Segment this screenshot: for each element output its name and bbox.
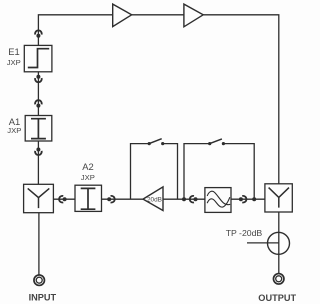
switch S2 lever xyxy=(210,139,222,144)
OUTPUT jack inner ring xyxy=(276,276,282,282)
Y symbol inside output switch xyxy=(269,188,289,208)
I-pad symbol inside A2 xyxy=(81,188,96,209)
svg-text:TP -20dB: TP -20dB xyxy=(226,228,263,238)
svg-text:JXP: JXP xyxy=(81,173,95,182)
connector plug above A1 (arc + dot) xyxy=(35,100,42,104)
attenuator A1 box xyxy=(25,116,52,142)
svg-text:E1: E1 xyxy=(8,46,19,57)
wire A2 to amplifier V3 xyxy=(102,198,144,200)
bypass loop 1 left leg xyxy=(131,144,150,200)
amplifier V2 (top right, pointing right) xyxy=(184,4,203,27)
wire filter to output Y box xyxy=(231,198,265,200)
INPUT jack inner ring xyxy=(36,277,42,283)
bypass loop 2 right leg xyxy=(223,144,254,200)
bypass loop 1 right leg xyxy=(163,144,178,200)
bandpass wave symbol inside filter xyxy=(207,191,230,204)
test point TP circle xyxy=(268,232,290,254)
switch Y box (input switch) xyxy=(24,184,54,212)
amplifier V1 (top left, pointing right) xyxy=(113,4,132,27)
attenuator A2 box xyxy=(75,185,102,211)
wire amplifier V3 to filter xyxy=(163,198,205,200)
svg-text:A2: A2 xyxy=(82,161,93,172)
connector plug below E1 (dot + arc) xyxy=(36,75,40,79)
connector plug below A1 (dot + arc) xyxy=(36,148,40,152)
junction dot loop2 left xyxy=(182,197,186,201)
INPUT jack outer ring xyxy=(34,275,45,286)
Y symbol inside input switch xyxy=(28,188,50,208)
connector plug above E1 (arc + dot) xyxy=(35,30,42,34)
svg-text:20dB: 20dB xyxy=(147,197,162,204)
connector plug left of filter (arc + dot) xyxy=(190,196,194,203)
I-pad symbol inside A1 xyxy=(31,119,46,139)
filter Z1 box xyxy=(205,188,231,213)
wire A1 to switch Y box xyxy=(37,141,39,184)
switch S1 contacts xyxy=(148,142,151,145)
wire top feedback line xyxy=(38,15,278,184)
switch Y box (output switch) xyxy=(265,184,292,212)
switch S1 lever xyxy=(149,139,162,144)
wire E1 to A1 xyxy=(37,72,39,116)
OUTPUT jack outer ring xyxy=(273,274,284,285)
test point tap line xyxy=(247,242,279,244)
svg-text:JXP: JXP xyxy=(7,58,21,67)
wire output Y box to OUTPUT jack xyxy=(278,212,280,274)
switch S2 contacts xyxy=(208,142,211,145)
bypass loop 2 left leg xyxy=(184,144,210,200)
svg-text:JXP: JXP xyxy=(7,126,21,135)
svg-text:OUTPUT: OUTPUT xyxy=(258,293,296,303)
amplifier V3 20dB (pointing left) xyxy=(143,187,163,211)
wire Y box to A2 xyxy=(53,198,75,200)
wire Y box to INPUT jack xyxy=(38,213,40,275)
svg-text:INPUT: INPUT xyxy=(29,293,57,303)
attenuator E1 box xyxy=(24,45,52,71)
connector plug right of A2 (dot + arc) xyxy=(107,197,111,201)
step symbol inside E1 xyxy=(28,49,49,68)
connector plug left of A2 (arc + dot) xyxy=(59,196,63,203)
connector plug right of filter (dot + arc) xyxy=(239,197,243,201)
junction dot loop2 right xyxy=(252,197,256,201)
